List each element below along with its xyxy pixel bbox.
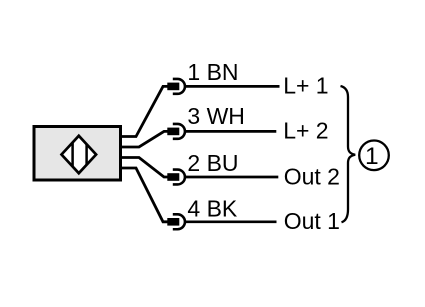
wire pin 1 (box to plug) bbox=[121, 86, 168, 136]
wire pin 4 (socket to label) bbox=[184, 220, 276, 223]
svg-text:1: 1 bbox=[365, 143, 379, 170]
svg-text:Out 2: Out 2 bbox=[284, 164, 340, 190]
wire pin 1 (socket to label) bbox=[184, 85, 279, 88]
brace grouping outputs bbox=[341, 86, 356, 222]
sensor body box bbox=[34, 127, 121, 181]
connector pin 1 socket bbox=[173, 79, 185, 94]
svg-text:L+ 1: L+ 1 bbox=[283, 73, 328, 99]
svg-text:4 BK: 4 BK bbox=[187, 196, 238, 222]
svg-text:L+ 2: L+ 2 bbox=[283, 118, 328, 144]
svg-text:2 BU: 2 BU bbox=[187, 150, 238, 176]
wire pin 2 (socket to label) bbox=[184, 176, 278, 179]
svg-text:3 WH: 3 WH bbox=[187, 103, 245, 129]
wire pin 3 (socket to label) bbox=[184, 130, 276, 133]
connector pin 3 socket bbox=[173, 124, 185, 139]
connector pin 4 socket bbox=[173, 214, 185, 229]
diamond inner line right bbox=[85, 140, 88, 170]
connector pin 1 plug bbox=[167, 83, 179, 91]
connector pin 4 plug bbox=[167, 218, 179, 226]
svg-text:Out 1: Out 1 bbox=[284, 208, 340, 234]
sensor optic symbol diamond bbox=[62, 136, 97, 173]
connector pin 2 socket bbox=[173, 170, 185, 185]
svg-text:1 BN: 1 BN bbox=[187, 59, 238, 85]
connector pin 2 plug bbox=[167, 173, 179, 181]
wire pin 4 (box to plug) bbox=[121, 168, 168, 222]
wire pin 2 (box to plug) bbox=[121, 158, 168, 178]
note circle 1 bbox=[359, 141, 389, 171]
connector pin 3 plug bbox=[167, 128, 179, 136]
diamond inner line left bbox=[71, 140, 74, 170]
wire pin 3 (box to plug) bbox=[121, 131, 168, 147]
